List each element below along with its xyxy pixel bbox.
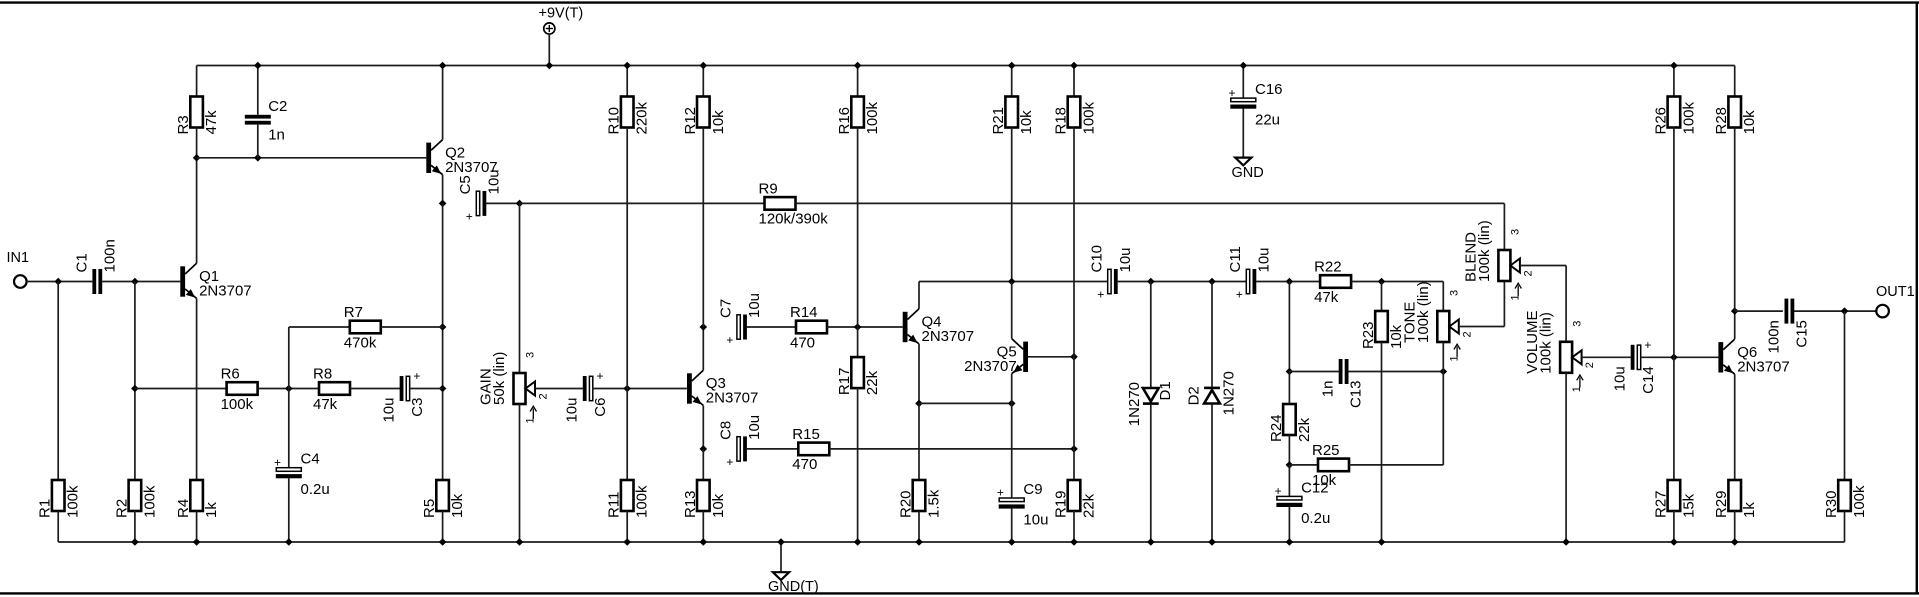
wire bbox=[857, 66, 859, 97]
junction bbox=[1008, 538, 1016, 546]
svg-text:100k: 100k bbox=[1851, 485, 1868, 518]
svg-text:22k: 22k bbox=[1296, 417, 1313, 442]
svg-text:470: 470 bbox=[790, 334, 815, 351]
svg-text:100k: 100k bbox=[864, 101, 881, 134]
junction bbox=[854, 323, 862, 331]
svg-text:3: 3 bbox=[1510, 229, 1522, 235]
wire bbox=[1735, 310, 1783, 312]
wire bbox=[442, 175, 444, 204]
svg-text:C11: C11 bbox=[1227, 246, 1244, 272]
wire bbox=[288, 389, 290, 468]
wire bbox=[1442, 342, 1444, 372]
wire bbox=[1011, 128, 1013, 282]
svg-text:47k: 47k bbox=[203, 110, 220, 135]
wire bbox=[548, 34, 550, 65]
svg-text:10u: 10u bbox=[746, 415, 763, 440]
wire bbox=[1150, 282, 1152, 389]
junction bbox=[439, 323, 447, 331]
junction bbox=[700, 538, 708, 546]
svg-text:10u: 10u bbox=[1117, 247, 1134, 272]
wire bbox=[1150, 405, 1152, 542]
svg-text:1: 1 bbox=[1448, 355, 1460, 361]
wire bbox=[1242, 109, 1244, 158]
svg-text:100n: 100n bbox=[101, 239, 118, 272]
wire bbox=[410, 388, 443, 390]
wire bbox=[857, 388, 859, 542]
svg-text:1k: 1k bbox=[203, 502, 220, 518]
junction bbox=[1070, 445, 1078, 453]
svg-text:10u: 10u bbox=[380, 398, 397, 423]
wire bbox=[196, 128, 198, 158]
wire bbox=[1844, 311, 1846, 480]
junction bbox=[1670, 62, 1678, 70]
capacitor C10 bbox=[1089, 245, 1134, 302]
svg-text:10u: 10u bbox=[564, 398, 581, 423]
svg-text:R6: R6 bbox=[221, 366, 240, 383]
svg-text:+: + bbox=[1275, 484, 1282, 498]
ground GND(T) bbox=[768, 572, 819, 595]
resistor R5 bbox=[421, 480, 466, 518]
capacitor C14 bbox=[1612, 338, 1657, 394]
svg-text:R11: R11 bbox=[606, 492, 623, 518]
svg-text:100k: 100k bbox=[141, 485, 158, 518]
wire bbox=[1734, 128, 1736, 312]
resistor R16 bbox=[836, 97, 881, 135]
svg-text:R5: R5 bbox=[421, 499, 438, 518]
transistor Q3 bbox=[687, 370, 758, 406]
svg-text:R7: R7 bbox=[344, 304, 363, 321]
svg-text:22u: 22u bbox=[1255, 112, 1280, 129]
svg-text:R29: R29 bbox=[1713, 490, 1730, 518]
junction bbox=[1670, 538, 1678, 546]
wire bbox=[1734, 66, 1736, 97]
wire bbox=[746, 448, 798, 450]
wire bbox=[102, 281, 180, 283]
resistor R2 bbox=[113, 480, 158, 518]
svg-text:C1: C1 bbox=[73, 253, 90, 272]
wire bbox=[1211, 282, 1213, 387]
svg-text:D1: D1 bbox=[1157, 381, 1174, 400]
wire bbox=[1348, 371, 1443, 373]
svg-text:+: + bbox=[726, 333, 733, 347]
svg-text:R12: R12 bbox=[682, 107, 699, 135]
junction bbox=[700, 445, 708, 453]
svg-text:3: 3 bbox=[1571, 321, 1583, 327]
potentiometer GAIN bbox=[478, 352, 550, 424]
junction bbox=[516, 538, 524, 546]
resistor R19 bbox=[1053, 480, 1098, 518]
resistor R10 bbox=[606, 97, 651, 135]
junction bbox=[1841, 307, 1849, 315]
wire bbox=[702, 449, 704, 480]
wire bbox=[134, 282, 136, 481]
junction bbox=[1286, 278, 1294, 286]
junction bbox=[700, 323, 708, 331]
wire bbox=[1734, 374, 1736, 480]
svg-text:C2: C2 bbox=[268, 98, 287, 115]
wire bbox=[1673, 128, 1675, 358]
junction bbox=[439, 62, 447, 70]
svg-text:10k: 10k bbox=[1741, 110, 1758, 135]
wire bbox=[1565, 373, 1567, 542]
resistor R6 bbox=[221, 366, 258, 413]
net +9V rail bbox=[197, 65, 1735, 67]
wire bbox=[1351, 281, 1443, 283]
wire bbox=[702, 405, 704, 449]
svg-text:47k: 47k bbox=[313, 396, 338, 413]
svg-text:3: 3 bbox=[1449, 290, 1461, 296]
resistor R24 bbox=[1268, 404, 1313, 442]
resistor R28 bbox=[1713, 97, 1758, 135]
wire bbox=[134, 511, 136, 542]
svg-text:C7: C7 bbox=[718, 299, 735, 318]
capacitor C15 bbox=[1766, 299, 1811, 354]
svg-text:R15: R15 bbox=[792, 426, 820, 443]
junction bbox=[1147, 538, 1155, 546]
wire bbox=[1073, 357, 1075, 449]
junction bbox=[1286, 461, 1294, 469]
wire bbox=[1073, 449, 1075, 480]
wire bbox=[918, 511, 920, 542]
svg-text:10k: 10k bbox=[1312, 472, 1337, 489]
svg-text:10u: 10u bbox=[1612, 366, 1629, 391]
svg-text:C14: C14 bbox=[1640, 366, 1657, 394]
junction bbox=[854, 62, 862, 70]
potentiometer VOLUME bbox=[1524, 310, 1596, 392]
svg-text:C8: C8 bbox=[718, 421, 735, 440]
junction bbox=[1440, 368, 1448, 376]
capacitor C16 bbox=[1228, 81, 1282, 129]
junction bbox=[1208, 278, 1216, 286]
wire bbox=[1073, 128, 1075, 357]
wire bbox=[196, 298, 198, 480]
svg-text:R23: R23 bbox=[1360, 321, 1377, 349]
junction bbox=[700, 62, 708, 70]
resistor R9 bbox=[759, 181, 829, 228]
svg-text:100k (lin): 100k (lin) bbox=[1476, 220, 1493, 282]
wire bbox=[442, 66, 444, 140]
wire bbox=[626, 128, 628, 389]
transistor Q5 bbox=[964, 339, 1028, 375]
resistor R20 bbox=[898, 480, 943, 518]
svg-text:R3: R3 bbox=[175, 115, 192, 134]
wire bbox=[350, 388, 400, 390]
wire bbox=[257, 66, 259, 115]
svg-text:C6: C6 bbox=[592, 398, 609, 417]
svg-text:C16: C16 bbox=[1255, 81, 1283, 98]
transistor Q1 bbox=[180, 263, 251, 299]
wire bbox=[827, 326, 903, 328]
potentiometer TONE bbox=[1401, 281, 1473, 361]
junction bbox=[915, 400, 923, 408]
wire bbox=[1073, 66, 1075, 97]
junction bbox=[1070, 62, 1078, 70]
wire VOLUME wiper row bbox=[1582, 356, 1632, 358]
svg-text:3: 3 bbox=[525, 352, 537, 358]
wire bbox=[135, 388, 227, 390]
wire bbox=[1073, 511, 1075, 542]
svg-text:R16: R16 bbox=[836, 107, 853, 135]
wire bbox=[442, 203, 444, 480]
svg-text:+: + bbox=[596, 369, 603, 383]
svg-text:R2: R2 bbox=[113, 499, 130, 518]
svg-text:R22: R22 bbox=[1314, 259, 1342, 276]
junction bbox=[1670, 354, 1678, 362]
wire bbox=[626, 66, 628, 97]
svg-text:1: 1 bbox=[525, 417, 537, 423]
resistor R15 bbox=[792, 426, 829, 473]
wire bbox=[1011, 374, 1013, 404]
capacitor C12 bbox=[1275, 479, 1331, 527]
svg-text:R27: R27 bbox=[1652, 490, 1669, 518]
resistor R21 bbox=[990, 97, 1035, 135]
junction bbox=[131, 385, 139, 393]
svg-text:100k: 100k bbox=[1081, 101, 1098, 134]
junction bbox=[439, 538, 447, 546]
resistor R18 bbox=[1053, 97, 1098, 135]
svg-text:2: 2 bbox=[1584, 362, 1596, 368]
svg-text:2N3707: 2N3707 bbox=[964, 358, 1017, 375]
svg-text:R9: R9 bbox=[759, 181, 778, 198]
junction bbox=[131, 538, 139, 546]
wire bbox=[1288, 435, 1290, 465]
resistor R7 bbox=[344, 304, 381, 351]
wire bbox=[288, 327, 290, 389]
svg-text:C3: C3 bbox=[409, 398, 426, 417]
wire bbox=[258, 388, 319, 390]
transistor Q4 bbox=[903, 309, 974, 345]
wire bbox=[196, 66, 198, 97]
svg-text:2: 2 bbox=[1461, 331, 1473, 337]
svg-text:R20: R20 bbox=[898, 490, 915, 518]
svg-text:2: 2 bbox=[538, 393, 550, 399]
power symbol +9V(T) bbox=[539, 6, 584, 34]
resistor R3 bbox=[175, 97, 220, 135]
svg-text:1k: 1k bbox=[1741, 502, 1758, 518]
wire bbox=[1381, 282, 1383, 312]
resistor R25 bbox=[1312, 442, 1349, 489]
svg-text:+: + bbox=[1097, 288, 1104, 302]
svg-text:10k: 10k bbox=[449, 493, 466, 518]
wire bbox=[196, 158, 198, 263]
junction bbox=[285, 385, 293, 393]
wire bbox=[626, 511, 628, 542]
junction bbox=[439, 385, 447, 393]
capacitor C3 bbox=[380, 369, 425, 423]
junction bbox=[1731, 307, 1739, 315]
junction bbox=[1008, 400, 1016, 408]
svg-text:22k: 22k bbox=[1081, 493, 1098, 518]
wire bbox=[746, 326, 796, 328]
wire bbox=[918, 403, 920, 480]
wire bbox=[1673, 357, 1675, 480]
svg-text:C5: C5 bbox=[457, 175, 474, 194]
wire bbox=[626, 389, 628, 481]
svg-text:R19: R19 bbox=[1053, 490, 1070, 518]
wire bbox=[702, 128, 704, 328]
svg-text:2: 2 bbox=[1522, 270, 1534, 276]
svg-text:100k (lin): 100k (lin) bbox=[1415, 281, 1432, 343]
wire bbox=[702, 511, 704, 542]
svg-text:100n: 100n bbox=[1766, 320, 1783, 353]
svg-text:R13: R13 bbox=[682, 490, 699, 518]
resistor R30 bbox=[1823, 480, 1868, 518]
svg-text:IN1: IN1 bbox=[7, 250, 30, 266]
capacitor C7 bbox=[718, 293, 763, 347]
capacitor C13 bbox=[1320, 359, 1365, 408]
capacitor C1 bbox=[73, 239, 118, 294]
resistor R8 bbox=[313, 366, 350, 413]
junction bbox=[285, 538, 293, 546]
svg-text:120k/390k: 120k/390k bbox=[759, 211, 829, 228]
svg-text:GND: GND bbox=[1232, 165, 1264, 181]
capacitor C4 bbox=[274, 451, 330, 499]
svg-text:22k: 22k bbox=[864, 370, 881, 395]
wire bbox=[1011, 403, 1013, 498]
svg-text:0.2u: 0.2u bbox=[301, 481, 330, 498]
svg-text:+: + bbox=[1644, 338, 1651, 352]
transistor Q2 bbox=[426, 140, 497, 176]
wire bbox=[702, 66, 704, 97]
capacitor C9 bbox=[997, 481, 1049, 529]
ground GND bbox=[1232, 158, 1264, 181]
diode D2 bbox=[1185, 371, 1237, 415]
junction bbox=[623, 385, 631, 393]
resistor R1 bbox=[37, 480, 82, 518]
svg-text:15k: 15k bbox=[1680, 493, 1697, 518]
svg-text:47k: 47k bbox=[1314, 289, 1339, 306]
svg-text:+: + bbox=[1228, 86, 1235, 100]
svg-text:470k: 470k bbox=[344, 334, 377, 351]
wire bbox=[918, 344, 920, 404]
wire bbox=[1289, 464, 1318, 466]
svg-text:2N3707: 2N3707 bbox=[706, 390, 759, 407]
svg-text:1: 1 bbox=[1571, 386, 1583, 392]
wire bbox=[1256, 281, 1320, 283]
junction bbox=[1286, 538, 1294, 546]
svg-text:1N270: 1N270 bbox=[1221, 371, 1238, 415]
junction bbox=[1562, 538, 1570, 546]
terminal IN1 bbox=[7, 250, 30, 288]
svg-text:1n: 1n bbox=[268, 127, 285, 144]
wire bbox=[1011, 508, 1013, 542]
capacitor C11 bbox=[1227, 246, 1272, 301]
svg-text:C10: C10 bbox=[1089, 245, 1106, 273]
svg-text:220k: 220k bbox=[634, 101, 651, 134]
capacitor C5 bbox=[457, 169, 502, 223]
wire bbox=[1442, 372, 1444, 465]
junction bbox=[1378, 278, 1386, 286]
resistor R27 bbox=[1652, 480, 1697, 518]
wire bbox=[535, 388, 583, 390]
svg-text:+: + bbox=[726, 455, 733, 469]
wire bbox=[1640, 356, 1718, 358]
wire bbox=[1242, 66, 1244, 99]
junction bbox=[1008, 278, 1016, 286]
svg-text:+9V(T): +9V(T) bbox=[539, 6, 584, 22]
svg-text:1: 1 bbox=[1509, 294, 1521, 300]
svg-text:50k (lin): 50k (lin) bbox=[491, 352, 508, 405]
wire bbox=[919, 281, 1108, 283]
junction bbox=[1286, 368, 1294, 376]
wire bbox=[519, 404, 521, 542]
svg-text:R8: R8 bbox=[313, 366, 332, 383]
wire BLEND wiper to VOLUME pin3 bbox=[1520, 265, 1566, 267]
wire bbox=[289, 326, 350, 328]
wire bbox=[1288, 465, 1290, 497]
wire bbox=[1794, 310, 1877, 312]
svg-text:1.5k: 1.5k bbox=[926, 489, 943, 518]
junction bbox=[1240, 62, 1248, 70]
wire bbox=[1503, 203, 1505, 250]
diode D1 bbox=[1126, 381, 1174, 426]
junction bbox=[131, 278, 139, 286]
wire bbox=[829, 448, 1074, 450]
resistor R13 bbox=[682, 480, 727, 518]
wire bbox=[519, 203, 521, 373]
resistor R22 bbox=[1314, 259, 1351, 306]
wire bbox=[780, 542, 782, 572]
wire bbox=[1289, 371, 1339, 373]
svg-text:1N270: 1N270 bbox=[1126, 382, 1143, 426]
wire bbox=[1673, 66, 1675, 97]
wire bbox=[1118, 281, 1247, 283]
wire bbox=[918, 282, 920, 309]
junction bbox=[623, 62, 631, 70]
svg-text:+: + bbox=[466, 209, 473, 223]
svg-text:1n: 1n bbox=[1320, 381, 1337, 398]
svg-text:10u: 10u bbox=[1256, 247, 1273, 272]
svg-text:0.2u: 0.2u bbox=[1301, 510, 1330, 527]
junction bbox=[777, 538, 785, 546]
wire TONE wiper to BLEND pin1 bbox=[1459, 326, 1505, 328]
svg-text:C4: C4 bbox=[301, 451, 320, 468]
svg-text:C9: C9 bbox=[1023, 481, 1042, 498]
wire bbox=[196, 511, 198, 542]
wire bbox=[257, 125, 259, 158]
wire bbox=[1288, 372, 1290, 405]
wire bbox=[1028, 356, 1074, 358]
wire emitter link bbox=[919, 402, 1012, 404]
wire bbox=[197, 157, 427, 159]
wire bbox=[1349, 464, 1443, 466]
junction bbox=[1070, 538, 1078, 546]
junction bbox=[1070, 353, 1078, 361]
junction bbox=[546, 62, 554, 70]
terminal OUT1 bbox=[1876, 284, 1915, 317]
junction bbox=[1147, 278, 1155, 286]
wire R9 line bbox=[520, 202, 765, 204]
resistor R17 bbox=[836, 357, 881, 395]
junction bbox=[254, 62, 262, 70]
wire bbox=[1211, 404, 1213, 543]
svg-text:10u: 10u bbox=[1023, 512, 1048, 529]
wire bbox=[1442, 282, 1444, 312]
svg-text:100k: 100k bbox=[1680, 101, 1697, 134]
junction bbox=[439, 200, 447, 208]
junction bbox=[854, 538, 862, 546]
wire bbox=[702, 327, 704, 370]
resistor R26 bbox=[1652, 97, 1697, 135]
svg-text:GND(T): GND(T) bbox=[768, 579, 819, 595]
wire bbox=[593, 388, 687, 390]
wire bbox=[1288, 507, 1290, 542]
svg-text:10k: 10k bbox=[710, 110, 727, 135]
svg-text:100k: 100k bbox=[634, 485, 651, 518]
junction bbox=[193, 538, 201, 546]
svg-text:R28: R28 bbox=[1713, 107, 1730, 135]
svg-text:10k: 10k bbox=[1018, 110, 1035, 135]
